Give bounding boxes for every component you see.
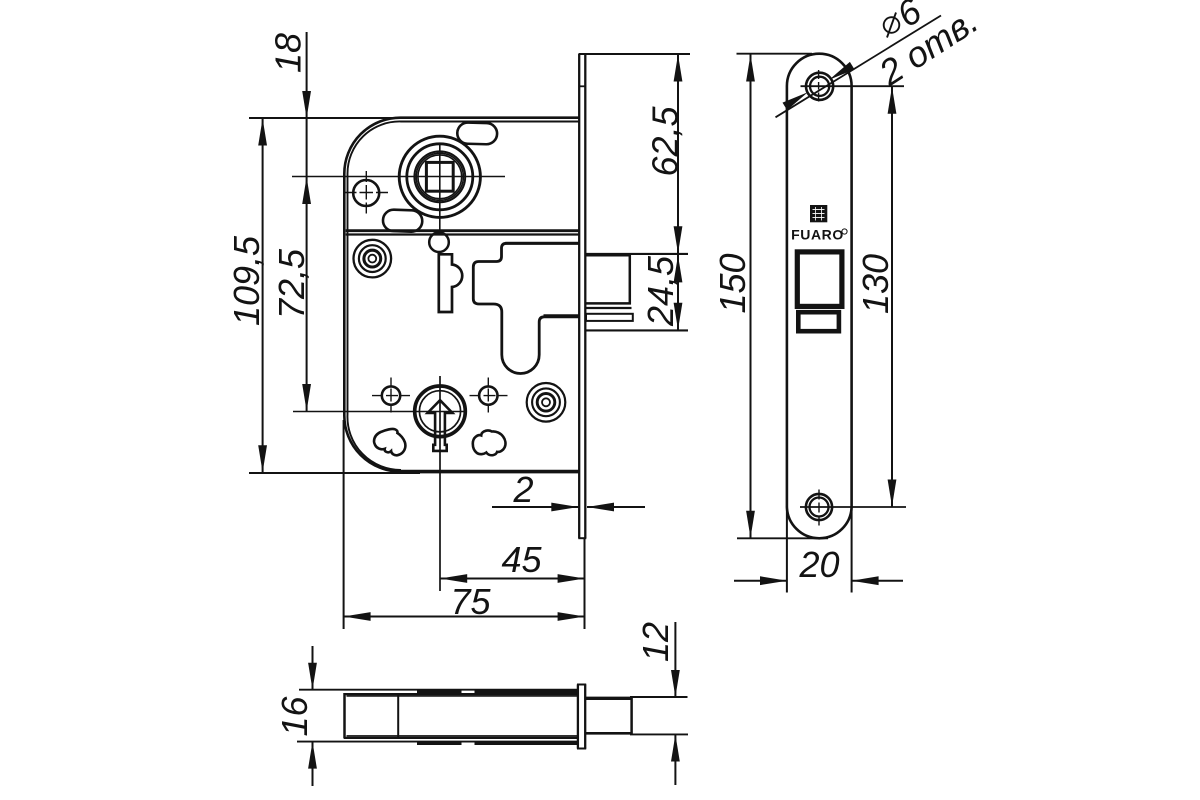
svg-text:130: 130 [855,254,896,314]
svg-text:24,5: 24,5 [640,255,681,327]
svg-text:2 отв.: 2 отв. [871,0,985,94]
svg-text:FUARO: FUARO [791,227,844,243]
svg-text:45: 45 [501,539,542,580]
svg-text:18: 18 [268,33,309,73]
svg-text:16: 16 [274,696,315,737]
svg-text:12: 12 [635,622,676,662]
svg-text:72,5: 72,5 [271,248,312,319]
svg-text:62,5: 62,5 [645,105,686,176]
svg-text:150: 150 [712,253,753,313]
svg-text:2: 2 [512,469,533,510]
svg-text:75: 75 [450,581,491,622]
svg-text:20: 20 [798,544,839,585]
svg-text:109,5: 109,5 [226,235,267,326]
